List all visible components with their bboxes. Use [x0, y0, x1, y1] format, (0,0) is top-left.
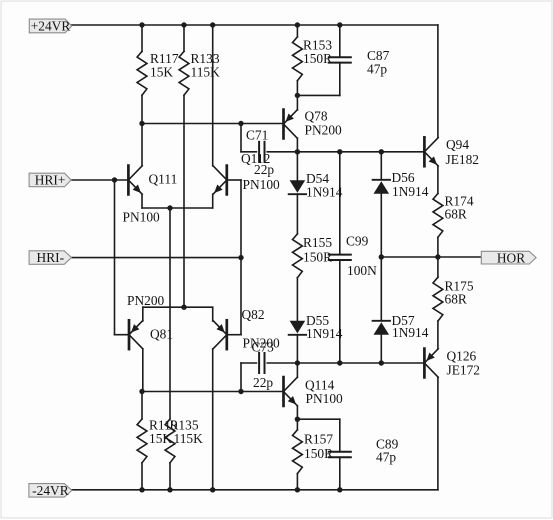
svg-text:HRI-: HRI-	[37, 250, 65, 265]
svg-text:D56: D56	[392, 170, 415, 185]
svg-text:C73: C73	[252, 339, 275, 354]
svg-text:C71: C71	[246, 128, 268, 143]
svg-text:Q94: Q94	[446, 137, 469, 152]
svg-text:JE182: JE182	[446, 152, 479, 167]
svg-text:150R: 150R	[303, 249, 332, 264]
svg-text:+24VR: +24VR	[31, 19, 71, 34]
svg-text:150R: 150R	[303, 51, 332, 66]
svg-text:JE172: JE172	[447, 362, 480, 377]
svg-text:Q81: Q81	[150, 326, 173, 341]
svg-text:PN200: PN200	[127, 293, 165, 308]
svg-text:R155: R155	[303, 235, 332, 250]
svg-text:68R: 68R	[445, 292, 467, 307]
svg-text:1N914: 1N914	[306, 185, 343, 200]
svg-text:100N: 100N	[347, 263, 377, 278]
svg-text:C99: C99	[346, 233, 369, 248]
svg-text:115K: 115K	[174, 431, 204, 446]
svg-text:68R: 68R	[445, 207, 467, 222]
svg-text:1N914: 1N914	[392, 325, 429, 340]
svg-text:Q82: Q82	[242, 307, 265, 322]
svg-text:150R: 150R	[304, 446, 333, 461]
svg-text:Q126: Q126	[447, 348, 477, 363]
svg-text:PN100: PN100	[306, 391, 344, 406]
svg-text:47p: 47p	[367, 62, 387, 77]
svg-text:22p: 22p	[254, 162, 274, 177]
svg-text:Q111: Q111	[149, 172, 178, 187]
svg-text:15K: 15K	[150, 65, 173, 80]
svg-text:1N914: 1N914	[392, 184, 429, 199]
svg-text:PN100: PN100	[243, 177, 281, 192]
svg-text:-24VR: -24VR	[32, 483, 69, 498]
svg-text:R157: R157	[304, 431, 333, 446]
svg-text:HRI+: HRI+	[35, 173, 66, 188]
svg-text:47p: 47p	[376, 449, 396, 464]
svg-text:1N914: 1N914	[306, 326, 343, 341]
svg-text:PN100: PN100	[123, 210, 161, 225]
svg-text:HOR: HOR	[497, 250, 525, 265]
svg-text:115K: 115K	[191, 65, 221, 80]
svg-text:Q78: Q78	[305, 109, 328, 124]
svg-text:15K: 15K	[149, 431, 172, 446]
svg-text:PN200: PN200	[305, 123, 343, 138]
svg-text:22p: 22p	[253, 375, 273, 390]
